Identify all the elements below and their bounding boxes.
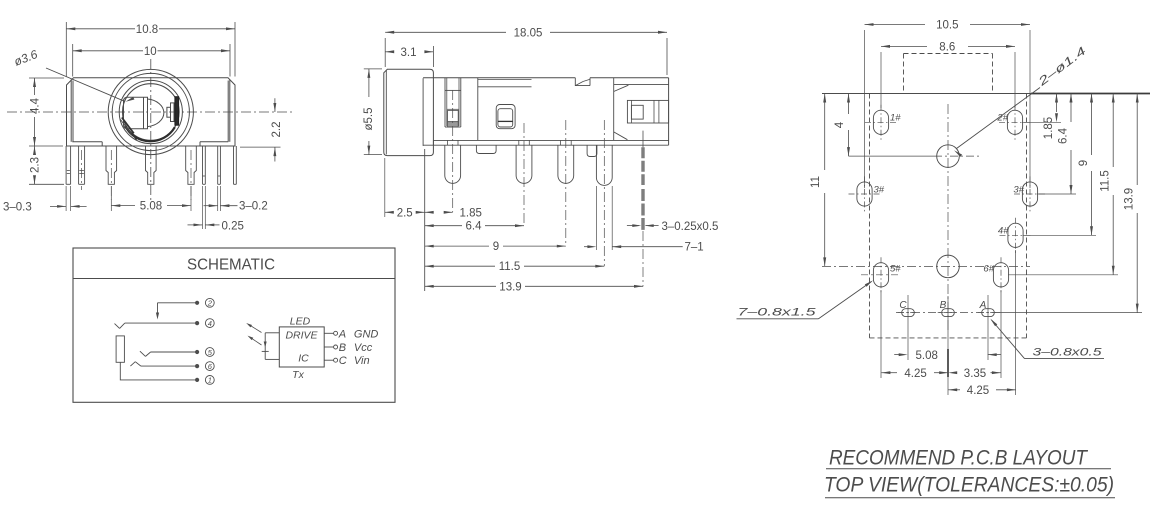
svg-text:RECOMMEND P.C.B LAYOUT: RECOMMEND P.C.B LAYOUT (829, 447, 1089, 470)
wire pin5 with switch (151, 351, 196, 353)
svg-text:DRIVE: DRIVE (285, 330, 318, 342)
pin1 slot inner (446, 78, 448, 126)
circled digit 6 (205, 362, 214, 371)
side pin D (595, 145, 597, 177)
contact dot 6 (195, 364, 199, 368)
svg-text:B: B (940, 300, 947, 311)
side view body bottom lines (433, 139, 668, 141)
contact dot 2 (195, 301, 199, 305)
circled digit 2 (205, 298, 214, 307)
pin1 slot outer (444, 78, 446, 127)
side view body right edge (668, 78, 670, 145)
pcb title rule 2 (825, 497, 1115, 499)
front pin 1 thin left (65, 146, 67, 184)
tip contact small step (167, 107, 171, 117)
hole 3# left (857, 182, 872, 206)
svg-text:3–0.3: 3–0.3 (3, 202, 32, 214)
dim 11.5 side (425, 265, 434, 268)
pcb outline notch (903, 54, 905, 94)
hole 1# (873, 110, 888, 134)
dim 11.5 right (1008, 274, 1118, 276)
svg-text:5.08: 5.08 (140, 201, 162, 213)
dim 10 (72, 44, 74, 77)
svg-text:C: C (899, 300, 907, 311)
svg-text:11.5: 11.5 (1100, 170, 1112, 192)
wire pin2 with arrow (158, 302, 196, 304)
side pin A (444, 145, 446, 175)
terminal A (324, 332, 333, 334)
svg-text:3–0.2: 3–0.2 (239, 201, 268, 213)
svg-text:13.9: 13.9 (1124, 188, 1136, 210)
back socket rect (627, 100, 668, 123)
front pin 6 thin (202, 146, 204, 184)
svg-text:2.2: 2.2 (271, 122, 283, 138)
svg-text:5#: 5# (890, 264, 901, 275)
svg-text:LED: LED (290, 315, 311, 327)
LED emission arrow 2 (251, 338, 262, 345)
dim 3.35 pcb (948, 371, 957, 374)
LED emission arrow 1 (250, 325, 262, 333)
svg-text:1.85: 1.85 (460, 207, 482, 219)
dim 1.85 right (1022, 121, 1061, 123)
hole 5# (873, 263, 888, 287)
svg-text:3#: 3# (1013, 185, 1024, 196)
svg-text:C: C (339, 355, 347, 367)
side view body front face (422, 78, 424, 146)
pin1 slot hatch (448, 122, 459, 127)
svg-text:ø3.6: ø3.6 (12, 47, 40, 69)
svg-text:8.6: 8.6 (939, 41, 955, 53)
dim 6.4 right (1037, 193, 1076, 195)
dim phi5.5 vertical (364, 68, 382, 70)
row line ABC (896, 312, 1002, 314)
svg-text:6.4: 6.4 (466, 221, 483, 233)
LED bracket (265, 332, 279, 334)
svg-text:6#: 6# (983, 264, 994, 275)
dim 18.05 (384, 38, 386, 67)
svg-text:2: 2 (207, 299, 213, 308)
front pin 5 wide (186, 146, 197, 184)
dim 4.25 pcb left (881, 371, 890, 374)
svg-text:6.4: 6.4 (1058, 127, 1070, 144)
circle1 row line (849, 155, 935, 157)
dim 2.3 vertical (29, 183, 64, 185)
side bottom boss 1 (476, 145, 496, 153)
terminal B (324, 346, 333, 348)
svg-text:10.5: 10.5 (936, 20, 958, 32)
dim 5.08 front (110, 186, 112, 211)
svg-text:7–0.8x1.5: 7–0.8x1.5 (738, 307, 817, 319)
dim 2.2 vertical right (240, 146, 281, 148)
top notch (575, 78, 590, 86)
pcb top reference line (822, 93, 1031, 95)
side pin C (557, 145, 559, 175)
pcb outline dashed bottom (870, 337, 1027, 339)
svg-text:4.25: 4.25 (904, 368, 926, 380)
svg-text:A: A (338, 328, 346, 340)
hole 4# (1008, 223, 1023, 247)
svg-text:4.25: 4.25 (967, 385, 989, 397)
jack hole outer circle (119, 80, 182, 143)
side view divider front section (477, 78, 479, 141)
hole 2# (1007, 110, 1022, 134)
svg-text:2.5: 2.5 (397, 207, 413, 219)
dim 9 right (1023, 234, 1097, 236)
svg-text:2–ø1.4: 2–ø1.4 (1035, 45, 1088, 89)
svg-text:10: 10 (144, 46, 157, 58)
pcb title rule 1 (826, 468, 1111, 470)
dim 7-1 (595, 186, 597, 250)
front view body outline (67, 78, 236, 146)
pcb vertical centerline (947, 104, 949, 330)
svg-text:11.5: 11.5 (499, 261, 521, 273)
dim 13.9 side (425, 285, 434, 288)
contact dot 5 (195, 350, 199, 354)
svg-text:4: 4 (208, 319, 212, 328)
side pin centerlines (452, 90, 454, 212)
front pin centerlines (110, 150, 112, 200)
svg-text:A: A (979, 300, 987, 311)
tip contact mid step (171, 103, 175, 122)
inner contact dome (148, 99, 164, 127)
svg-text:4: 4 (834, 121, 846, 128)
jack hole thick bottom arc (125, 126, 175, 141)
front pin 2 (78, 146, 80, 184)
svg-text:4#: 4# (998, 226, 1009, 237)
dim 4.25 pcb bottom (948, 388, 957, 391)
wire pin6 with switch (141, 365, 196, 367)
jack barrel second circle (112, 73, 189, 150)
pcb top reference line dark segment (1031, 93, 1150, 95)
dim 6.4 side (425, 224, 434, 227)
side view divider back section (613, 78, 615, 141)
leader 2-phi1.4 (957, 88, 1041, 149)
dim 3-0.25x0.5 (627, 225, 639, 227)
hole 3# right (1022, 182, 1037, 206)
hole C (902, 309, 915, 317)
svg-text:2.3: 2.3 (30, 157, 42, 173)
circle2 row long centerline (822, 265, 1030, 267)
dim 4.4 vertical (29, 77, 64, 79)
side thin pin dark dashed (641, 147, 644, 185)
svg-text:1#: 1# (890, 113, 901, 124)
svg-text:5.08: 5.08 (916, 350, 938, 362)
front pin 4 wide center (146, 146, 157, 184)
svg-text:4.4: 4.4 (30, 97, 42, 114)
front view bottom step right (200, 141, 228, 143)
latch window outer (496, 105, 515, 129)
LED drive IC box (279, 327, 324, 367)
back section chamfer bottom (614, 132, 628, 140)
svg-text:IC: IC (298, 353, 309, 365)
dim 4 left (848, 94, 850, 115)
leader phi3.6 (46, 68, 124, 101)
schematic title separator (73, 278, 395, 280)
spring contact diagonal (122, 118, 134, 134)
svg-text:3.1: 3.1 (401, 47, 417, 59)
svg-text:ø5.5: ø5.5 (363, 107, 375, 130)
circled digit 5 (205, 348, 214, 357)
side view body top edge (423, 77, 575, 79)
svg-text:9: 9 (493, 241, 499, 253)
side view shield top line (478, 78, 532, 80)
svg-text:SCHEMATIC: SCHEMATIC (187, 257, 275, 274)
hole A (982, 309, 995, 317)
contact dot 4 (195, 321, 199, 325)
dim 10.8 (65, 22, 67, 77)
pcb outline dashed right (1026, 94, 1028, 338)
circled digit 1 (205, 376, 214, 385)
svg-text:10.8: 10.8 (136, 24, 158, 36)
svg-text:13.9: 13.9 (499, 281, 521, 293)
bottom ext lines (880, 290, 882, 378)
front pin 7 thin (217, 146, 219, 184)
front view horizontal centerline (7, 111, 292, 113)
svg-text:3–0.25x0.5: 3–0.25x0.5 (662, 221, 719, 233)
back socket inner lines (630, 100, 632, 123)
svg-text:18.05: 18.05 (514, 27, 543, 39)
front view vertical centerline (150, 59, 152, 200)
sleeve rectangle (116, 336, 124, 362)
back section chamfer top (614, 85, 629, 91)
dim 3-0.2 (217, 186, 219, 211)
back section ledge (614, 84, 669, 86)
circled digit 4 (205, 319, 214, 328)
svg-text:3–0.8x0.5: 3–0.8x0.5 (1033, 346, 1103, 358)
dim 3-0.3 (65, 186, 67, 211)
dim 2.5 (384, 158, 386, 217)
front pin 3 wide (106, 146, 117, 184)
svg-text:Tx: Tx (292, 369, 304, 381)
inner contact block (124, 97, 148, 128)
svg-text:9: 9 (1078, 160, 1090, 166)
tip contact dark bar (175, 97, 179, 126)
dim 5.08 pcb (894, 354, 903, 356)
hole B (942, 309, 955, 317)
jack barrel outer circle (108, 69, 193, 154)
front view bottom step left (72, 141, 102, 143)
latch window inner (498, 109, 513, 127)
terminal C (324, 359, 333, 361)
svg-text:Vcc: Vcc (354, 342, 373, 354)
dim 3.1 (432, 46, 434, 67)
spring contact tick (132, 133, 137, 140)
dim 11 left (824, 94, 826, 171)
svg-text:B: B (339, 342, 346, 354)
dim 0.25 (202, 186, 204, 229)
dim 1.85 side (425, 211, 434, 214)
svg-text:Vin: Vin (354, 355, 370, 367)
side view flange (384, 69, 434, 155)
wire pin4 with switch (125, 322, 196, 324)
hole 6# (993, 263, 1008, 287)
svg-text:TOP VIEW(TOLERANCES:±0.05): TOP VIEW(TOLERANCES:±0.05) (824, 474, 1114, 497)
dim 10.5 (864, 30, 866, 188)
pcb outline dashed left (869, 94, 871, 338)
row line 5# (861, 274, 900, 276)
svg-text:1.85: 1.85 (1043, 117, 1055, 139)
schematic box frame (73, 248, 395, 402)
jack hole phi3.6 circle (123, 84, 180, 141)
side pin B (515, 145, 517, 175)
front view inner edge lines (70, 80, 72, 142)
dim 13.9 right (995, 312, 1142, 314)
svg-text:GND: GND (354, 328, 379, 340)
svg-text:3.35: 3.35 (964, 368, 986, 380)
side bottom boss 2 (587, 145, 597, 156)
svg-text:0.25: 0.25 (222, 220, 244, 232)
svg-text:3#: 3# (874, 185, 885, 196)
center hole phi1.4 lower (937, 255, 960, 278)
pin1 slot inner rect (448, 110, 459, 121)
side view ledge line (478, 86, 532, 88)
center hole phi1.4 upper (937, 145, 960, 168)
dim 8.6 (880, 52, 882, 108)
svg-text:11: 11 (810, 176, 822, 188)
dim 9 side (425, 245, 434, 248)
svg-text:1: 1 (208, 376, 212, 385)
contact dot 1 (195, 378, 199, 382)
svg-text:7–1: 7–1 (685, 242, 704, 254)
front pin 8 thin (233, 146, 235, 184)
wire pin1 from sleeve (120, 362, 195, 380)
